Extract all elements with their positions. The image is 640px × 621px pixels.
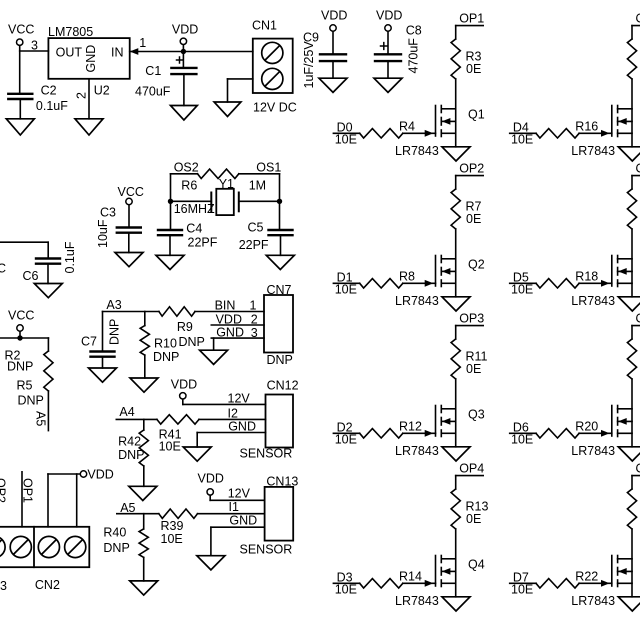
- svg-text:0.1uF: 0.1uF: [63, 241, 77, 273]
- svg-text:R12: R12: [399, 420, 422, 434]
- svg-text:Q4: Q4: [468, 558, 485, 572]
- svg-text:C6: C6: [23, 269, 39, 283]
- svg-text:SENSOR: SENSOR: [240, 543, 293, 557]
- svg-text:10E: 10E: [159, 440, 181, 454]
- svg-text:12V: 12V: [228, 392, 251, 406]
- svg-text:0E: 0E: [466, 362, 481, 376]
- svg-text:VDD: VDD: [376, 9, 402, 23]
- svg-text:VCC: VCC: [8, 309, 34, 323]
- svg-text:DNP: DNP: [18, 394, 44, 408]
- svg-text:R22: R22: [575, 570, 598, 584]
- svg-text:3: 3: [31, 39, 38, 53]
- svg-text:GND: GND: [84, 45, 98, 73]
- svg-text:LR7843: LR7843: [395, 594, 439, 608]
- svg-text:22PF: 22PF: [239, 238, 269, 252]
- svg-text:DNP: DNP: [108, 319, 122, 345]
- svg-text:R39: R39: [161, 519, 184, 533]
- svg-text:Q2: Q2: [468, 258, 485, 272]
- svg-text:GND: GND: [229, 514, 257, 528]
- svg-text:OP1: OP1: [21, 478, 35, 503]
- svg-text:12V DC: 12V DC: [253, 101, 297, 115]
- svg-text:OP6: OP6: [636, 161, 640, 175]
- svg-text:10E: 10E: [511, 433, 533, 447]
- svg-text:C3: C3: [100, 206, 116, 220]
- svg-text:CN1: CN1: [252, 19, 277, 33]
- svg-text:LR7843: LR7843: [395, 294, 439, 308]
- svg-text:IN: IN: [111, 46, 124, 60]
- svg-text:OP7: OP7: [636, 311, 640, 325]
- svg-text:GND: GND: [228, 420, 256, 434]
- svg-text:OP3: OP3: [459, 311, 484, 325]
- svg-text:CN7: CN7: [267, 283, 292, 297]
- svg-text:10E: 10E: [335, 583, 357, 597]
- svg-text:DNP: DNP: [267, 353, 293, 367]
- svg-text:10E: 10E: [511, 133, 533, 147]
- svg-text:C4: C4: [186, 222, 202, 236]
- svg-text:R18: R18: [575, 270, 598, 284]
- svg-text:LR7843: LR7843: [395, 444, 439, 458]
- svg-text:C7: C7: [81, 335, 97, 349]
- svg-text:R6: R6: [181, 179, 197, 193]
- svg-text:Q3: Q3: [468, 408, 485, 422]
- svg-text:VDD: VDD: [172, 23, 198, 37]
- svg-text:470uF: 470uF: [135, 85, 171, 99]
- svg-text:LM7805: LM7805: [48, 25, 93, 39]
- svg-text:OS1: OS1: [256, 161, 281, 175]
- svg-text:R10: R10: [154, 337, 177, 351]
- svg-text:1M: 1M: [249, 179, 266, 193]
- svg-text:OP2: OP2: [459, 161, 484, 175]
- svg-text:OS2: OS2: [174, 161, 199, 175]
- svg-text:LR7843: LR7843: [571, 594, 615, 608]
- svg-text:I1: I1: [229, 500, 239, 514]
- svg-text:LR7843: LR7843: [571, 144, 615, 158]
- svg-text:DNP: DNP: [103, 541, 129, 555]
- svg-text:C8: C8: [406, 24, 422, 38]
- svg-text:CN12: CN12: [267, 379, 299, 393]
- svg-text:1: 1: [250, 299, 257, 313]
- svg-text:BIN: BIN: [215, 299, 236, 313]
- svg-text:VDD: VDD: [321, 9, 347, 23]
- svg-text:A3: A3: [106, 298, 121, 312]
- svg-text:OP2: OP2: [0, 478, 8, 503]
- svg-text:470uF: 470uF: [407, 38, 421, 74]
- svg-text:LR7843: LR7843: [395, 144, 439, 158]
- svg-text:DNP: DNP: [153, 350, 179, 364]
- svg-text:C: C: [0, 262, 6, 276]
- svg-text:2: 2: [75, 92, 89, 99]
- svg-text:OUT: OUT: [56, 46, 83, 60]
- svg-text:Q1: Q1: [468, 108, 485, 122]
- svg-text:OP1: OP1: [459, 11, 484, 25]
- svg-text:1: 1: [139, 36, 146, 50]
- svg-text:0E: 0E: [466, 62, 481, 76]
- svg-text:LR7843: LR7843: [571, 294, 615, 308]
- svg-text:U2: U2: [94, 84, 110, 98]
- svg-text:VCC: VCC: [118, 185, 144, 199]
- svg-text:22PF: 22PF: [188, 236, 218, 250]
- svg-text:A4: A4: [119, 405, 134, 419]
- svg-text:0E: 0E: [466, 212, 481, 226]
- svg-text:R40: R40: [103, 526, 126, 540]
- svg-text:10E: 10E: [511, 283, 533, 297]
- svg-text:C1: C1: [145, 64, 161, 78]
- svg-text:OP5: OP5: [636, 11, 640, 25]
- svg-text:DNP: DNP: [7, 360, 33, 374]
- svg-text:CN13: CN13: [266, 475, 298, 489]
- svg-text:R8: R8: [399, 270, 415, 284]
- svg-text:VCC: VCC: [8, 23, 34, 37]
- svg-text:R42: R42: [118, 435, 141, 449]
- svg-text:0E: 0E: [466, 512, 481, 526]
- svg-text:R16: R16: [575, 120, 598, 134]
- svg-text:10uF: 10uF: [96, 219, 110, 248]
- svg-text:R5: R5: [17, 379, 33, 393]
- svg-text:1uF/25V: 1uF/25V: [302, 41, 316, 89]
- svg-text:A5: A5: [34, 411, 48, 426]
- svg-text:R9: R9: [177, 320, 193, 334]
- svg-text:CN3: CN3: [0, 579, 7, 593]
- svg-text:OP4: OP4: [459, 461, 484, 475]
- svg-text:OP8: OP8: [636, 461, 640, 475]
- svg-text:LR7843: LR7843: [571, 444, 615, 458]
- svg-text:10E: 10E: [335, 283, 357, 297]
- svg-text:I2: I2: [228, 407, 238, 421]
- svg-text:10E: 10E: [161, 532, 183, 546]
- svg-text:DNP: DNP: [118, 448, 144, 462]
- svg-text:VDD: VDD: [87, 468, 113, 482]
- svg-text:0.1uF: 0.1uF: [36, 99, 68, 113]
- svg-text:10E: 10E: [335, 433, 357, 447]
- svg-text:DNP: DNP: [179, 335, 205, 349]
- svg-text:16MHZ: 16MHZ: [174, 202, 215, 216]
- svg-text:R20: R20: [575, 420, 598, 434]
- svg-text:12V: 12V: [228, 487, 251, 501]
- svg-text:C2: C2: [41, 84, 57, 98]
- svg-text:10E: 10E: [511, 583, 533, 597]
- svg-text:R4: R4: [399, 120, 415, 134]
- svg-text:R14: R14: [399, 570, 422, 584]
- svg-text:VDD: VDD: [171, 378, 197, 392]
- svg-text:SENSOR: SENSOR: [240, 447, 293, 461]
- svg-text:VDD: VDD: [198, 472, 224, 486]
- svg-text:C5: C5: [248, 221, 264, 235]
- svg-text:10E: 10E: [335, 133, 357, 147]
- svg-text:CN2: CN2: [35, 578, 60, 592]
